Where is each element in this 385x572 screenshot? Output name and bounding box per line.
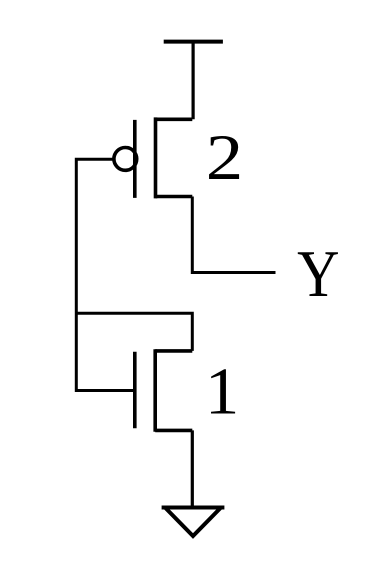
power VDD bar (164, 40, 223, 44)
transistor Q1 nMOS (135, 349, 193, 432)
wire input node A (connects Q2 gate and Q1 gate) (76, 159, 135, 390)
transistor Q2 pMOS (135, 117, 193, 198)
wire Q2 drain to output Y (192, 197, 275, 273)
wire Q1 source to ground (191, 430, 194, 507)
svg-text:Y: Y (297, 236, 339, 311)
svg-text:1: 1 (205, 354, 239, 428)
wire VDD stem to Q2 source (192, 42, 195, 120)
ground bar (162, 506, 225, 510)
ground triangle (166, 508, 221, 536)
gate bubble of pMOS Q2 (114, 148, 137, 171)
svg-text:2: 2 (206, 123, 243, 194)
wire node A branch to Q1 drain (76, 313, 192, 351)
